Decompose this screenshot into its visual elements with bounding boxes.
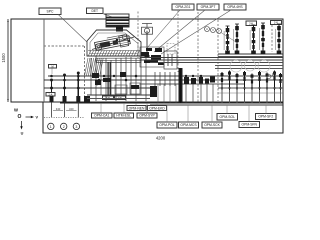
svg-text:OPM-CA1: OPM-CA1 <box>94 114 109 118</box>
svg-text:OPM-MCS: OPM-MCS <box>180 123 197 127</box>
svg-text:OPM-NEN: OPM-NEN <box>129 106 145 110</box>
svg-text:OPM-POL: OPM-POL <box>159 123 175 127</box>
svg-text:W: W <box>14 108 18 113</box>
svg-text:HTM-ESL: HTM-ESL <box>116 114 131 118</box>
svg-text:1500: 1500 <box>1 53 6 63</box>
svg-text:U: U <box>21 132 24 136</box>
svg-text:OPM-SFN: OPM-SFN <box>242 123 258 127</box>
svg-text:OPM-3PT: OPM-3PT <box>201 5 216 9</box>
svg-text:OPM-SF2: OPM-SF2 <box>258 115 273 119</box>
svg-text:340: 340 <box>56 107 61 111</box>
svg-text:OPM-EKD: OPM-EKD <box>149 106 165 110</box>
svg-text:T: T <box>218 29 220 33</box>
svg-text:2: 2 <box>63 125 65 129</box>
svg-text:DET: DET <box>91 9 98 13</box>
svg-text:M: M <box>51 65 53 68</box>
svg-text:4200: 4200 <box>156 136 166 141</box>
svg-text:SPC: SPC <box>47 9 55 13</box>
svg-text:OPM-SYP: OPM-SYP <box>139 114 155 118</box>
svg-text:OPM-SOL: OPM-SOL <box>220 115 236 119</box>
svg-text:U: U <box>206 27 208 31</box>
svg-text:1: 1 <box>50 125 52 129</box>
svg-text:3: 3 <box>75 125 77 129</box>
svg-text:340: 340 <box>69 107 74 111</box>
svg-text:V: V <box>36 116 39 120</box>
svg-text:V: V <box>212 28 214 32</box>
svg-text:O: O <box>18 114 22 120</box>
svg-text:OPM-2G1: OPM-2G1 <box>175 5 190 9</box>
svg-text:OPM-SCK: OPM-SCK <box>204 123 220 127</box>
svg-text:OPM-4HS: OPM-4HS <box>227 5 243 9</box>
